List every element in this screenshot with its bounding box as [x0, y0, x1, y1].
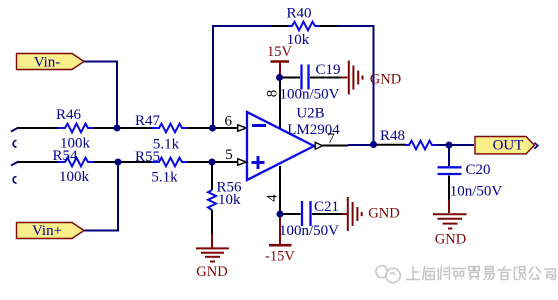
svg-text:U2B: U2B [296, 106, 324, 122]
svg-text:8: 8 [264, 90, 280, 98]
svg-text:R46: R46 [56, 107, 82, 123]
svg-text:10k: 10k [218, 192, 241, 208]
svg-text:GND: GND [435, 232, 466, 248]
svg-text:6: 6 [224, 113, 232, 129]
svg-text:5.1k: 5.1k [151, 170, 178, 186]
svg-text:R54: R54 [52, 148, 78, 164]
svg-text:GND: GND [370, 72, 401, 88]
svg-text:C20: C20 [465, 162, 490, 178]
svg-text:-15V: -15V [265, 249, 295, 265]
svg-text:Vin-: Vin- [34, 55, 61, 71]
svg-text:GND: GND [196, 264, 227, 280]
svg-text:100n/50V: 100n/50V [279, 223, 339, 239]
svg-text:10n/50V: 10n/50V [450, 184, 503, 200]
svg-text:100n/50V: 100n/50V [280, 87, 340, 103]
svg-text:OUT: OUT [493, 138, 524, 154]
svg-text:15V: 15V [267, 44, 293, 60]
svg-text:5: 5 [225, 147, 233, 163]
svg-text:GND: GND [368, 206, 399, 222]
svg-text:R40: R40 [286, 6, 311, 22]
svg-text:4: 4 [265, 194, 281, 202]
svg-text:100k: 100k [59, 169, 90, 185]
svg-text:Vin+: Vin+ [32, 223, 62, 239]
svg-text:C19: C19 [315, 62, 340, 78]
svg-text:R48: R48 [380, 128, 405, 144]
svg-text:R47: R47 [135, 113, 161, 129]
svg-text:C21: C21 [314, 199, 339, 215]
svg-text:7: 7 [327, 131, 335, 147]
svg-text:R55: R55 [135, 149, 160, 165]
